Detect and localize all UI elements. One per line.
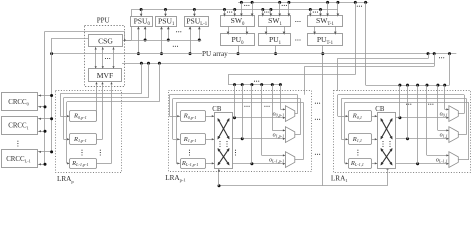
arrowhead into PSU bottom	[167, 27, 170, 30]
svg-text:RL-1,1: RL-1,1	[350, 160, 364, 168]
svg-text:CB: CB	[375, 106, 385, 113]
node rail V2	[50, 94, 53, 97]
wire mux output riser	[303, 102, 305, 159]
arrowhead into PSU bottom	[144, 27, 147, 30]
node L5 select junction	[443, 84, 446, 87]
wire CRCC0 bottom port to rail V1	[38, 106, 45, 108]
wire CRCCL-1 bottom port to rail V1	[38, 164, 45, 166]
wire CSG-MVF connector	[102, 47, 104, 69]
wire rail L4 select bus middle LRA	[228, 84, 281, 86]
wire rail L2p	[337, 58, 428, 60]
wire select vertical	[444, 85, 446, 109]
wire PSU right input from line A	[145, 26, 147, 40]
node L2 feedback drop	[158, 62, 161, 65]
wire bus1 (upper horizontal bus)	[238, 2, 368, 4]
wire CB output row to mux	[396, 163, 449, 165]
ellipsis between CSG-MVF connectors	[105, 58, 110, 59]
block SW0	[221, 16, 255, 27]
wire tap vertical from select bus	[251, 85, 253, 164]
arrowhead into SW	[319, 14, 322, 17]
wire bus1 drop into SW top	[337, 2, 339, 16]
wire PU-array line right part	[228, 53, 456, 55]
wire CRCC0 top port to rail V2	[38, 95, 52, 97]
arrowhead into register	[177, 138, 179, 140]
node bus1 junction x=327.6	[326, 1, 329, 4]
node PU-array right x=434.2	[433, 52, 436, 55]
wire bus2 drop into PSU top	[141, 10, 143, 17]
wire LRA0 output riser to MVF	[96, 82, 98, 116]
arrowhead into SW	[240, 14, 243, 17]
node bus1 junction x=279.7	[278, 1, 281, 4]
arrowhead into CB	[212, 115, 214, 117]
arrowhead into mux upper input	[283, 108, 285, 110]
wire rail V1	[44, 31, 46, 164]
wire tap vertical from select bus	[399, 85, 401, 118]
mux 0,p-1	[285, 106, 294, 122]
node PU1 on PU-array line	[274, 52, 277, 55]
node L4 select junction	[250, 83, 253, 86]
arrowhead into CRCC top port	[39, 94, 41, 96]
block MVF	[89, 69, 122, 82]
wire into register	[338, 116, 349, 118]
wire feedback top line	[169, 94, 297, 96]
node on PU-array line	[137, 52, 140, 55]
wire input rail down	[176, 102, 178, 163]
svg-text:CRCC1: CRCC1	[8, 123, 29, 131]
register R0,1	[349, 111, 372, 122]
vertical dots registers	[189, 150, 190, 156]
wire select into mux top input	[438, 130, 449, 132]
node bus1 junction x=365.6	[364, 1, 367, 4]
mux 1,p-1	[285, 127, 294, 143]
ellipsis between SW1 and SWT-1	[295, 21, 300, 22]
wire vertical from bus1 to L5	[365, 2, 367, 85]
wire input rail down	[341, 99, 343, 140]
wire select vertical	[426, 85, 428, 155]
wire register to CB	[371, 163, 377, 165]
wire bus1 drop into SW top	[241, 2, 243, 16]
register RL-1,p-1	[70, 159, 97, 169]
vertical dots right of middle CB	[235, 150, 236, 156]
wire feedback top line	[345, 102, 469, 104]
wire LRA0 output riser to MVF	[102, 82, 104, 139]
register R1,1	[349, 134, 372, 145]
wire feedback drop from L2	[148, 63, 150, 98]
wire input rail down	[172, 99, 174, 140]
arrowhead into right CB bottom	[386, 167, 388, 169]
node rail V2	[50, 150, 53, 153]
node PUT-1 on PU-array line	[321, 52, 324, 55]
svg-text:R0,p-1: R0,p-1	[73, 113, 87, 121]
wire select vertical	[280, 85, 282, 110]
arrowhead into CB	[212, 162, 214, 164]
svg-text:CB: CB	[212, 106, 222, 113]
block PUT-1	[308, 34, 343, 46]
wire SW to PU	[246, 26, 248, 34]
vertical dots inside CB right	[389, 141, 390, 147]
svg-text:R0,p-1: R0,p-1	[183, 113, 197, 121]
block SWT-1	[308, 16, 343, 27]
arrowhead into CRCC bottom port	[39, 106, 41, 108]
ellipsis between middle and right LRA	[315, 103, 320, 104]
arrowhead into register	[346, 138, 348, 140]
wire register to CB	[371, 116, 377, 118]
crossbar X pattern upper	[381, 119, 392, 139]
arrowhead into CRCC bottom port	[39, 163, 41, 165]
wire mux output riser	[300, 99, 302, 135]
wire into register input	[60, 116, 70, 118]
wire bus2 drop into PSU top	[194, 10, 196, 17]
wire PU1 bottom drop	[275, 45, 277, 53]
arrowhead into CSG bottom	[95, 47, 97, 49]
arrowhead into CRCC bottom port	[39, 130, 41, 132]
wire into register	[345, 163, 349, 165]
arrowhead into PSU bottom	[160, 27, 163, 30]
arrowhead into CB	[212, 138, 214, 140]
node L2 feedback drop	[140, 62, 143, 65]
wire bus2 (lower horizontal bus)	[131, 9, 338, 11]
wire into register	[173, 139, 180, 141]
arrowhead into PU top	[265, 32, 268, 35]
wire register to CB	[205, 139, 214, 141]
arrowhead into SW	[337, 14, 340, 17]
node L5 select junction	[426, 84, 429, 87]
wire feedback horizontal into LRA0	[67, 101, 159, 103]
wire register to CB	[371, 139, 377, 141]
arrowhead into register	[346, 162, 348, 164]
node L4 select junction	[233, 83, 236, 86]
vertical dots registers	[357, 150, 358, 156]
ellipsis between middle and right LRA	[315, 154, 320, 155]
wire select vertical	[261, 85, 263, 156]
wire mux output	[295, 134, 301, 136]
wire CRCCL-1 top port to rail V2	[38, 151, 52, 153]
wire bottom bus	[219, 185, 388, 187]
wire input rail down	[337, 95, 339, 116]
block PSUL-1	[185, 17, 209, 27]
arrowhead into CRCC top port	[39, 151, 41, 153]
wire CB output row to mux	[233, 163, 286, 165]
wire bus1 drop into SW top	[279, 2, 281, 16]
arrowhead into CRCC top port	[39, 118, 41, 120]
wire corner L3 to L4	[228, 75, 230, 85]
wire bus2 drop into SW top	[270, 10, 272, 17]
wire riser from line A to bus2	[131, 10, 133, 41]
wire rail L5 select bus right LRA	[366, 85, 450, 87]
wire corner up to PU-array line	[428, 54, 430, 59]
wire mux output	[458, 159, 469, 161]
node on line A	[144, 39, 147, 42]
node L5 select junction	[436, 84, 439, 87]
node tap on CB output row	[406, 137, 409, 140]
wire CSG-MVF connector	[113, 47, 115, 69]
wire register to CB	[205, 116, 214, 118]
svg-text:PPU: PPU	[97, 16, 110, 24]
arrowhead into mux lower input	[283, 163, 285, 165]
wire tap vertical from select bus	[407, 85, 409, 139]
wire feedback top line	[341, 98, 466, 100]
wire rail L2b	[305, 66, 435, 68]
node bus1 junction x=337.9	[336, 1, 339, 4]
wire CRCC1 top port to rail V2	[38, 118, 52, 120]
node bus2 junction x=310.3	[309, 8, 312, 11]
wire bus2 drop into SW top	[320, 10, 322, 17]
wire select vertical	[272, 85, 274, 131]
node PU0 on PU-array line	[237, 52, 240, 55]
crossbar X pattern lower	[381, 149, 392, 165]
arrowhead into SW	[261, 14, 264, 17]
arrowhead into mux upper input	[446, 129, 448, 131]
arrowhead into middle CB bottom	[218, 169, 220, 171]
block CRCCL-1	[2, 150, 38, 168]
wire vertical from bus1 to L3	[355, 2, 357, 74]
svg-text:R1,p-1: R1,p-1	[183, 136, 197, 144]
vertical dots between CRCC1 and CRCCL-1	[17, 141, 18, 147]
node on PU-array line	[189, 52, 192, 55]
wire CSG-MVF connector	[95, 47, 97, 69]
node bus2 junction x=224.5	[223, 8, 226, 11]
wire L2p drop into right LRA box	[337, 59, 339, 91]
crossbar X pattern upper	[218, 119, 229, 139]
wire mux output riser	[468, 102, 470, 159]
ellipsis near PU-array right end	[439, 57, 444, 58]
crossbar X pattern lower	[218, 149, 229, 165]
svg-text:R1,1: R1,1	[352, 136, 362, 144]
wire mux output	[295, 159, 304, 161]
node tap on CB output row	[416, 162, 419, 165]
arrowhead into register	[67, 162, 69, 164]
wire tap vertical from select bus	[417, 85, 419, 164]
mux L-1,p-1	[285, 152, 294, 168]
arrowhead into mux upper input	[446, 108, 448, 110]
wire CB output row to mux	[396, 138, 449, 140]
block CRCC1	[2, 117, 38, 135]
svg-text:RL-1,p-1: RL-1,p-1	[71, 160, 88, 168]
node bus2 junction x=320.5	[319, 8, 322, 11]
ellipsis on bus1	[282, 5, 287, 6]
wire select vertical	[437, 85, 439, 130]
wire SW to PU	[335, 26, 337, 34]
dashed box PPU	[85, 26, 125, 87]
wire into register	[169, 116, 180, 118]
wire into register	[341, 139, 348, 141]
wire mux output	[295, 113, 298, 115]
arrowhead into PSU bottom	[198, 27, 201, 30]
wire feedback top line	[173, 98, 301, 100]
ellipsis between PU1 and PUT-1	[295, 39, 300, 40]
wire line A under PSUs	[125, 40, 202, 42]
wire register to CB	[205, 163, 214, 165]
ellipsis middle LRA top 2	[264, 106, 269, 107]
arrowhead into PU top	[334, 32, 337, 35]
svg-text:MVF: MVF	[97, 71, 113, 80]
wire SW to PU	[284, 26, 286, 34]
wire select into mux top input	[280, 109, 285, 111]
node tap on CB output row	[398, 116, 401, 119]
wire feedback top line	[338, 94, 464, 96]
dotted box LRA_p-1 (middle)	[169, 91, 312, 172]
wire right CB bottom feed	[387, 167, 389, 186]
arrowhead into CSG bottom	[102, 47, 104, 49]
wire feedback horizontal into LRA0	[64, 97, 149, 99]
vertical dots LRA0 registers	[81, 150, 82, 156]
vertical dots inside CB right	[226, 141, 227, 147]
wire select into mux top input	[262, 155, 286, 157]
arrowhead into CB	[375, 115, 377, 117]
mux L-1,1	[449, 152, 458, 168]
ellipsis between middle and right LRA	[315, 119, 320, 120]
node tap on CB output row	[250, 162, 253, 165]
wire CSG output to line A	[123, 40, 132, 42]
wire PU-array line left part	[52, 53, 202, 55]
wire CB output row to mux	[233, 138, 286, 140]
wire input rail down	[344, 102, 346, 163]
ellipsis on bus2	[227, 12, 232, 13]
arrowhead into CB	[375, 138, 377, 140]
wire tap vertical from select bus	[242, 85, 244, 139]
wire bus2 drop into SW top	[262, 10, 264, 17]
wire LRA0 input rail down	[63, 98, 65, 139]
wire rail L3	[228, 74, 355, 76]
wire bus1 drop into SW top	[252, 2, 254, 16]
arrowhead into PSU top	[164, 14, 167, 17]
vertical dots inside CB	[382, 141, 383, 147]
ellipsis right LRA top	[406, 104, 411, 105]
arrowhead into PSU bottom	[137, 27, 140, 30]
svg-text:R1,p-1: R1,p-1	[73, 136, 87, 144]
node rail V1	[44, 105, 47, 108]
node L4 select junction	[279, 83, 282, 86]
arrowhead into SW	[270, 14, 273, 17]
node bus1 junction x=288.9	[287, 1, 290, 4]
wire PSU left input from PU-array line	[190, 26, 192, 53]
arrowhead into SW	[251, 14, 254, 17]
arrowhead into SW	[223, 14, 226, 17]
arrowhead into SW	[278, 14, 281, 17]
node bottom bus at CB drop	[218, 184, 221, 187]
ellipsis below line A	[173, 46, 178, 47]
wire tap vertical from select bus	[234, 85, 236, 118]
wire CRCC1 bottom port to rail V1	[38, 131, 45, 133]
wire register output stub	[95, 116, 98, 118]
crossbar CB box	[215, 113, 233, 169]
node PU-array start on rail V2	[50, 52, 53, 55]
svg-text:CRCC0: CRCC0	[8, 99, 29, 107]
arrowhead into MVF top	[102, 66, 104, 68]
arrowhead into CSG bottom	[112, 47, 114, 49]
vertical dots LRA0 risers	[100, 150, 101, 156]
dotted box LRA_p (left)	[56, 91, 122, 173]
node rail V2	[50, 117, 53, 120]
node bus1 junction x=355.3	[354, 1, 357, 4]
crossbar CB box	[378, 113, 396, 169]
wire LRA0 input rail down	[66, 102, 68, 164]
register R1,p-1	[181, 134, 206, 145]
wire CB output row to mux	[396, 117, 449, 119]
wire bus2 drop into SW top	[234, 10, 236, 17]
wire select into mux top input	[427, 155, 449, 157]
arrowhead into MVF top	[95, 66, 97, 68]
ellipsis on bus2	[264, 12, 269, 13]
node bus2 junction x=234.7	[233, 8, 236, 11]
arrowhead into PU top	[313, 32, 316, 35]
node L2 feedback drop	[147, 62, 150, 65]
svg-text:oL-1,p-1: oL-1,p-1	[269, 157, 284, 164]
arrowhead into register	[177, 162, 179, 164]
block PSU1	[156, 17, 177, 27]
wire PSU left input from PU-array line	[138, 26, 140, 53]
node bus2 junction x=141.1	[140, 8, 143, 11]
register R0,p-1	[181, 111, 206, 122]
arrowhead into SW	[233, 14, 236, 17]
arrowhead into register	[67, 138, 69, 140]
arrowhead into PU top	[227, 32, 230, 35]
ellipsis middle LRA top	[244, 106, 249, 107]
node L4 select junction	[241, 83, 244, 86]
block CSG	[89, 35, 123, 47]
node L5 select junction	[416, 84, 419, 87]
wire feedback horizontal into LRA0	[60, 93, 141, 95]
wire select into mux top input	[272, 130, 285, 132]
wire mux output riser	[466, 99, 468, 135]
node on PU-array line	[160, 52, 163, 55]
node L4 select junction	[271, 83, 274, 86]
node L4 select junction	[260, 83, 263, 86]
arrowhead into MVF bottom	[95, 82, 97, 84]
arrowhead into SW	[326, 14, 329, 17]
wire PUT-1 bottom riser down to bottom bus	[322, 45, 324, 186]
node L5 select junction	[406, 84, 409, 87]
wire mux output riser	[464, 95, 466, 114]
wire PSU right input from line A	[199, 26, 201, 40]
wire bus2 drop into PSU top	[165, 10, 167, 17]
wire register output stub	[96, 139, 103, 141]
wire vertical PU-array to L5	[449, 54, 451, 86]
node on line A	[198, 39, 201, 42]
arrowhead into register	[67, 115, 69, 117]
arrowhead into SW	[288, 14, 291, 17]
arrowhead CSG output	[124, 39, 126, 41]
node on line A	[167, 39, 170, 42]
wire SW to PU	[228, 26, 230, 34]
wire into register	[176, 163, 180, 165]
arrowhead into mux upper input	[283, 129, 285, 131]
dotted box LRA_1 (right)	[334, 91, 471, 173]
node tap on CB output row	[233, 116, 236, 119]
ellipsis on bus1	[244, 5, 249, 6]
arrowhead into MVF top	[112, 66, 114, 68]
arrowhead into mux lower input	[446, 117, 448, 119]
wire over-CSG feed from rail V1	[45, 31, 125, 33]
arrowhead into CB	[375, 162, 377, 164]
wire mux output riser	[297, 95, 299, 114]
wire bus2 drop into SW top	[310, 10, 312, 17]
wire input rail down	[169, 95, 171, 116]
block SW1	[259, 16, 291, 27]
wire feedback drop from L2	[159, 63, 161, 102]
arrowhead into PU top	[283, 32, 286, 35]
register RL-1,p-1	[181, 159, 206, 169]
node bus1 junction x=241.4	[240, 1, 243, 4]
register R0,p-1	[70, 111, 97, 122]
ellipsis on L4	[254, 81, 259, 82]
svg-text:R0,1: R0,1	[352, 113, 362, 121]
wire into register input	[67, 163, 70, 165]
arrowhead into SW	[309, 14, 312, 17]
wire bus1 drop into SW top	[327, 2, 329, 16]
wire PU0 bottom drop	[238, 45, 240, 53]
wire into register input	[64, 139, 70, 141]
